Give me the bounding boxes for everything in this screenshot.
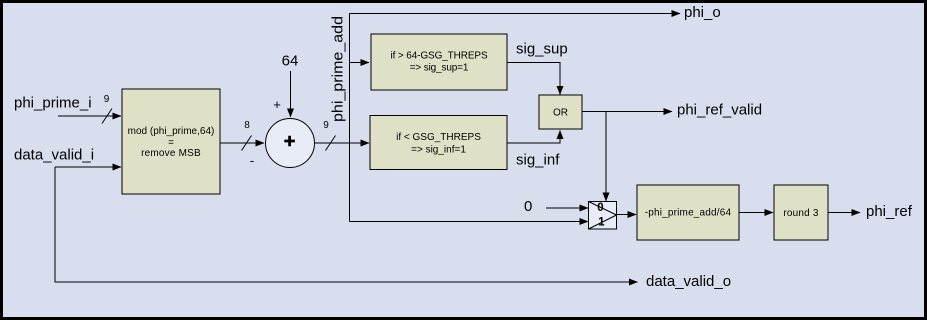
- svg-text:phi_ref_valid: phi_ref_valid: [677, 102, 762, 119]
- wire sig_sup to OR gate: [507, 63, 560, 95]
- bus width slash 9 (phi_prime_i): [102, 109, 112, 124]
- svg-text:+: +: [273, 97, 281, 112]
- wire data_valid_i to mod block: [55, 166, 121, 168]
- svg-text:=> sig_inf=1: => sig_inf=1: [411, 145, 466, 156]
- svg-text:1: 1: [598, 217, 605, 229]
- wire trunk to sig_sup comparator: [350, 62, 370, 64]
- bus width slash 8: [242, 136, 252, 151]
- svg-text:if > 64-GSG_THREPS: if > 64-GSG_THREPS: [390, 51, 487, 62]
- wire 64 to adder: [290, 71, 292, 117]
- wire mod block to adder: [220, 142, 264, 144]
- svg-text:8: 8: [244, 120, 250, 131]
- svg-text:64: 64: [282, 53, 299, 70]
- mux (0/1 selector): [589, 202, 617, 230]
- svg-text:-phi_prime_add/64: -phi_prime_add/64: [645, 208, 732, 219]
- svg-text:sig_sup: sig_sup: [516, 41, 568, 58]
- adder (summing junction): [266, 119, 315, 168]
- wire to phi_o: [350, 13, 681, 15]
- svg-text:OR: OR: [553, 108, 568, 119]
- wire divider to round block: [739, 212, 773, 214]
- svg-text:phi_prime_i: phi_prime_i: [14, 95, 92, 112]
- svg-text:data_valid_o: data_valid_o: [646, 273, 731, 290]
- svg-text:0: 0: [597, 202, 603, 214]
- block round 3: [774, 185, 828, 240]
- svg-text:data_valid_i: data_valid_i: [14, 147, 94, 164]
- block comparator sig_sup: [371, 34, 507, 90]
- wire phi_prime_i to mod block: [58, 115, 121, 117]
- wire trunk to sig_inf comparator: [350, 142, 370, 144]
- bus width slash 9 (adder out): [326, 136, 336, 151]
- svg-text:sig_inf: sig_inf: [516, 152, 560, 169]
- wire round block to phi_ref: [828, 212, 860, 214]
- wire data_valid_i branch down: [55, 167, 638, 282]
- gate OR: [539, 95, 582, 129]
- block comparator sig_inf: [370, 116, 507, 170]
- svg-text:=: =: [168, 138, 174, 149]
- svg-text:phi_prime_add: phi_prime_add: [330, 16, 347, 122]
- svg-text:round 3: round 3: [783, 208, 818, 219]
- block mod(phi_prime,64) remove MSB: [122, 89, 220, 194]
- svg-text:0: 0: [524, 198, 532, 215]
- wire sig_inf to OR gate: [507, 131, 560, 144]
- wire trunk to mux input 1: [350, 221, 589, 223]
- svg-text:mod (phi_prime,64): mod (phi_prime,64): [128, 126, 215, 137]
- svg-text:phi_ref: phi_ref: [866, 203, 913, 220]
- svg-text:if < GSG_THREPS: if < GSG_THREPS: [396, 132, 481, 143]
- svg-text:=> sig_sup=1: => sig_sup=1: [410, 63, 469, 74]
- svg-text:9: 9: [104, 94, 110, 105]
- svg-text:9: 9: [323, 120, 329, 131]
- wire adder output to trunk: [315, 142, 351, 144]
- wire OR output branch to mux select: [605, 112, 607, 202]
- wire 0 to mux input 0: [546, 207, 588, 209]
- svg-text:remove MSB: remove MSB: [141, 148, 201, 159]
- svg-text:-: -: [250, 153, 254, 168]
- wire mux output to divider block: [617, 214, 637, 216]
- wire OR output to phi_ref_valid: [582, 111, 672, 113]
- wire trunk vertical: [349, 14, 351, 222]
- svg-text:phi_o: phi_o: [684, 4, 721, 21]
- block -phi_prime_add/64: [637, 185, 739, 240]
